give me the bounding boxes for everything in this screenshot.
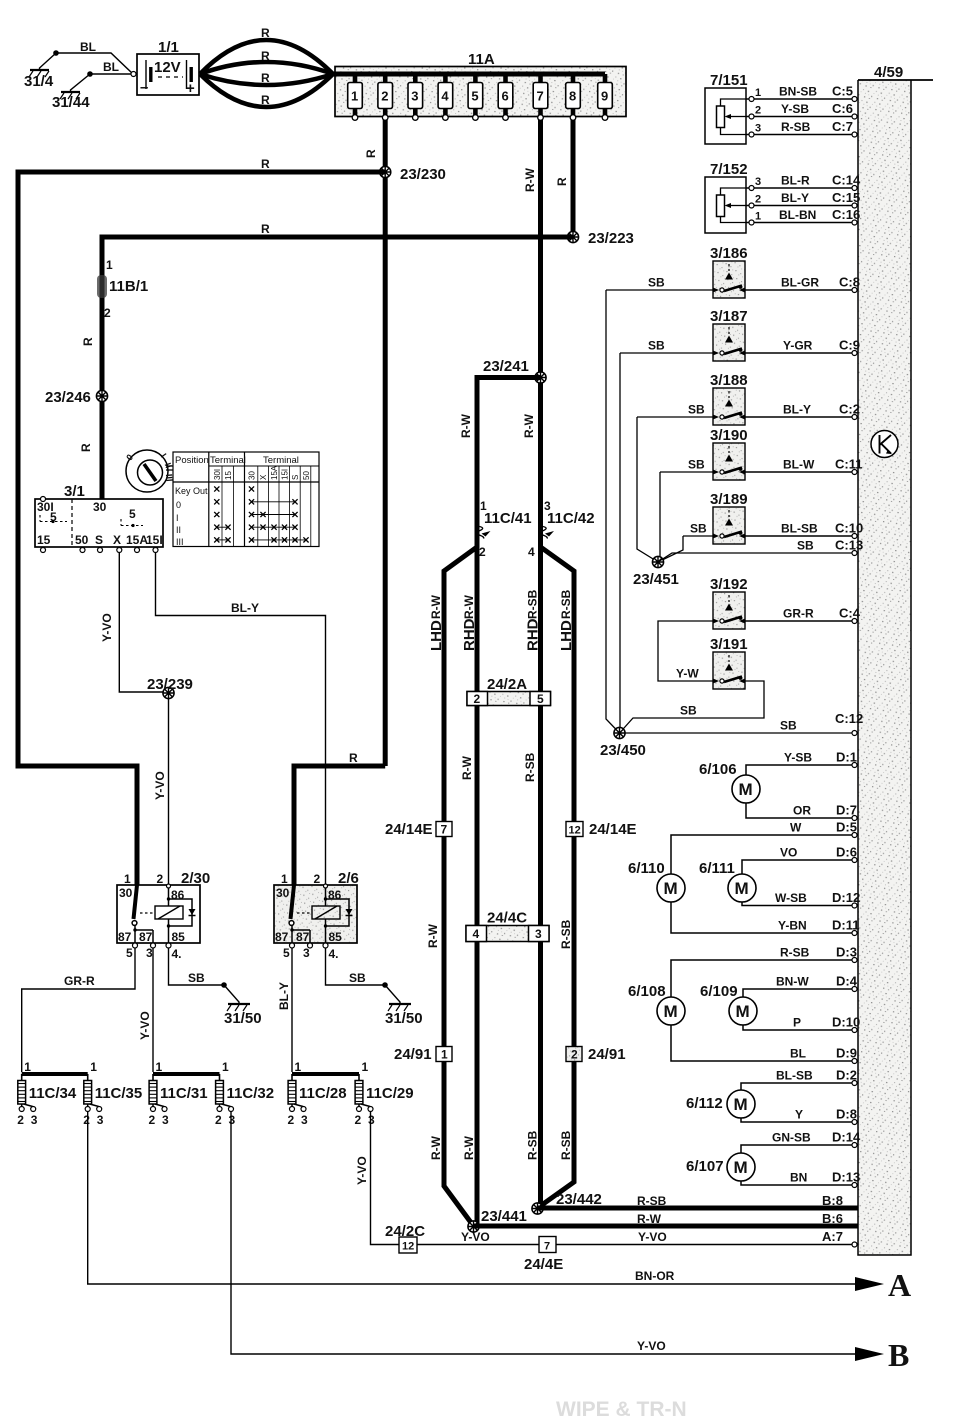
svg-text:12: 12 (569, 825, 581, 837)
motor 6/109 (700, 983, 757, 1025)
svg-text:1/1: 1/1 (158, 39, 179, 56)
svg-text:R-W: R-W (460, 755, 474, 780)
wire BL-Y 3/188 to C:2 (745, 416, 858, 418)
svg-text:+: + (186, 80, 195, 97)
inline connector 11C/41 (477, 510, 532, 539)
svg-text:R: R (261, 49, 270, 63)
svg-text:A:7: A:7 (822, 1229, 843, 1244)
svg-text:1: 1 (480, 499, 487, 513)
svg-text:8: 8 (569, 89, 576, 104)
connector 24/4C pins 4,3 (466, 910, 549, 942)
wire SB to 3/189 (683, 535, 713, 537)
svg-text:BN-W: BN-W (776, 975, 809, 989)
lamp 11C/31 (149, 1060, 208, 1127)
wire BL-SB to D:2 (741, 1083, 858, 1090)
wire SB relay 2/30 pin 85 to ground (169, 948, 225, 985)
svg-text:BL-Y: BL-Y (781, 191, 809, 205)
wire W-SB to D:12 (742, 902, 858, 906)
svg-text:SB: SB (648, 276, 665, 290)
fuse 11B/1 (97, 258, 148, 320)
svg-text:D:4: D:4 (836, 974, 858, 989)
inline connector 11C/42 (540, 510, 594, 539)
fuse 11A #2 (378, 74, 393, 120)
svg-text:24/2A: 24/2A (487, 676, 527, 693)
svg-text:R: R (555, 177, 569, 186)
fuse 11A #3 (408, 74, 423, 120)
wire Y-VO 24/4E to connector A:7 (556, 1244, 853, 1246)
sensor 7/151 (705, 72, 858, 144)
svg-text:30: 30 (276, 886, 290, 900)
svg-text:C:5: C:5 (832, 84, 853, 99)
svg-text:M: M (739, 780, 753, 799)
svg-text:5: 5 (129, 507, 136, 521)
wire BL to D:9 (671, 1025, 858, 1061)
svg-text:C:6: C:6 (832, 101, 853, 116)
arrow B (855, 1347, 884, 1361)
svg-text:2: 2 (355, 1113, 362, 1127)
svg-text:R-SB: R-SB (559, 1130, 573, 1160)
svg-text:BL-GR: BL-GR (781, 276, 819, 290)
relay relay 2/6 (274, 870, 359, 961)
connector 24/91 pin 2 (566, 1046, 626, 1063)
wire RHD R-W (475, 547, 480, 1226)
lamp feed bus 11C/34/11C/35 (22, 1072, 88, 1076)
svg-text:M: M (734, 1158, 748, 1177)
svg-text:C:11: C:11 (835, 457, 862, 472)
svg-text:3/187: 3/187 (710, 308, 748, 325)
node 23/241 (535, 372, 546, 383)
svg-text:3: 3 (146, 946, 153, 960)
svg-text:6/109: 6/109 (700, 983, 738, 1000)
wire Y-VO 24/2C to 24/4E (417, 1244, 539, 1246)
wire SB to 3/186 (606, 289, 713, 291)
wire SB 23/451 to C:13 (658, 553, 858, 562)
svg-text:15: 15 (37, 533, 51, 547)
svg-text:1: 1 (106, 258, 113, 272)
wire SB 3/186 feed vertical (606, 290, 620, 733)
svg-text:3/1: 3/1 (64, 483, 85, 500)
svg-text:Position: Position (175, 455, 209, 466)
svg-text:31/50: 31/50 (224, 1010, 262, 1027)
wire R from fuse 2 down (383, 120, 388, 766)
svg-text:15A: 15A (126, 533, 148, 547)
svg-text:11C/32: 11C/32 (227, 1085, 275, 1102)
fuse 11A #7 (533, 74, 548, 120)
wire R-W from fuse 7 down (538, 120, 543, 377)
svg-text:R-SB: R-SB (559, 919, 573, 949)
svg-text:11C/41: 11C/41 (484, 510, 532, 527)
svg-text:11C/34: 11C/34 (29, 1085, 77, 1102)
wire R-SB to D:3 (671, 960, 858, 997)
wire R-SB 7/151 pin 3 to C:7 (746, 134, 858, 136)
svg-text:3: 3 (411, 89, 418, 104)
svg-text:2/30: 2/30 (181, 870, 210, 887)
switch 3/192 (710, 576, 748, 629)
svg-text:Y-VO: Y-VO (355, 1156, 369, 1185)
svg-text:2: 2 (755, 105, 761, 117)
ground 31/50 right (382, 982, 422, 1027)
svg-text:3: 3 (303, 946, 310, 960)
svg-text:1: 1 (124, 872, 131, 886)
svg-text:Y-BN: Y-BN (778, 919, 807, 933)
fuse 11A #1 (348, 74, 363, 120)
svg-text:2: 2 (755, 194, 761, 206)
svg-text:11A: 11A (468, 51, 495, 68)
wire SB to 3/188 (637, 416, 713, 418)
svg-text:M: M (664, 1002, 678, 1021)
svg-text:23/230: 23/230 (400, 166, 446, 183)
svg-text:15: 15 (224, 471, 233, 480)
wire RHD R-SB (538, 547, 543, 1208)
svg-text:5: 5 (537, 692, 544, 706)
svg-text:B:8: B:8 (822, 1193, 843, 1208)
svg-text:3/186: 3/186 (710, 245, 748, 262)
wire P to D:10 (743, 1025, 858, 1030)
svg-text:50: 50 (302, 471, 311, 480)
arrow A (855, 1277, 884, 1291)
svg-text:SB: SB (688, 403, 705, 417)
svg-text:Terminal: Terminal (210, 455, 246, 466)
svg-text:R: R (261, 26, 270, 40)
lamp feed bus 11C/28/11C/29 (292, 1072, 359, 1076)
svg-text:31/44: 31/44 (52, 94, 90, 111)
svg-text:SB: SB (690, 522, 707, 536)
svg-text:23/246: 23/246 (45, 389, 91, 406)
lamp 11C/29 (355, 1060, 414, 1127)
svg-text:2: 2 (314, 872, 321, 886)
wire Y-SB 7/151 pin 2 to C:6 (746, 116, 858, 118)
wire BL-R 7/152 pin 3 to C:14 (746, 187, 858, 189)
svg-text:Y-SB: Y-SB (781, 102, 809, 116)
wire Y-BN to D:11 (671, 902, 858, 933)
svg-text:A: A (888, 1267, 911, 1303)
svg-text:R-SB: R-SB (526, 1130, 540, 1160)
svg-text:OR: OR (793, 804, 811, 818)
svg-text:R-W: R-W (426, 923, 440, 948)
svg-text:BL-SB: BL-SB (776, 1069, 813, 1083)
motor 6/111 (699, 860, 756, 902)
svg-text:SB: SB (797, 539, 814, 553)
wire R 23/230 left loop to relay 2/30 (18, 172, 385, 886)
svg-text:BN-OR: BN-OR (635, 1269, 675, 1283)
svg-text:Y-SB: Y-SB (784, 751, 812, 765)
wire OR to D:7 (746, 803, 858, 818)
svg-text:12V: 12V (154, 59, 181, 76)
svg-text:3/192: 3/192 (710, 576, 748, 593)
wire R 23/223 to ignition switch (102, 237, 573, 499)
svg-text:SB: SB (688, 458, 705, 472)
svg-text:C:16: C:16 (832, 207, 860, 222)
svg-text:R-SB: R-SB (780, 946, 810, 960)
svg-text:R-W: R-W (637, 1212, 662, 1226)
svg-text:2: 2 (83, 1113, 90, 1127)
svg-text:Key Out: Key Out (175, 486, 208, 496)
wire Y-W 3/192 to 3/191 (658, 621, 713, 681)
svg-text:15I: 15I (281, 469, 290, 480)
svg-text:M: M (736, 1002, 750, 1021)
wire BL-Y relay 2/6 pin 87 to lamps (291, 948, 293, 1072)
motor 6/110 (628, 860, 685, 902)
svg-text:23/441: 23/441 (481, 1208, 527, 1225)
svg-text:BN-SB: BN-SB (779, 85, 817, 99)
lamp feed bus 11C/31/11C/32 (153, 1072, 220, 1076)
svg-text:RHD: RHD (461, 618, 478, 651)
svg-text:1: 1 (295, 1060, 302, 1074)
switch 3/190 (710, 427, 748, 480)
wire R-W 23/241 branch (477, 378, 541, 548)
svg-text:R-W: R-W (462, 594, 476, 619)
svg-text:Terminal: Terminal (263, 455, 299, 466)
svg-text:2: 2 (474, 692, 481, 706)
svg-text:30: 30 (248, 471, 257, 480)
key switch symbol (124, 450, 174, 492)
svg-text:7: 7 (544, 1241, 550, 1253)
wire Y-SB to D:1 (746, 765, 858, 775)
svg-text:R-SB: R-SB (526, 589, 540, 619)
svg-text:R-SB: R-SB (637, 1194, 667, 1208)
node 23/441 (468, 1221, 479, 1232)
svg-text:C:8: C:8 (839, 275, 860, 290)
svg-text:D:8: D:8 (836, 1107, 857, 1122)
svg-text:W: W (790, 821, 802, 835)
wire Y to D:8 (741, 1118, 858, 1122)
symbol K on 4/59 (871, 431, 898, 458)
svg-text:P: P (793, 1016, 801, 1030)
ground 31/4 (24, 50, 59, 90)
ground 31/44 (52, 71, 93, 111)
svg-text:R: R (261, 93, 270, 107)
svg-text:11C/35: 11C/35 (95, 1085, 143, 1102)
svg-text:M: M (735, 879, 749, 898)
svg-text:15I: 15I (146, 533, 163, 547)
svg-text:23/451: 23/451 (633, 571, 679, 588)
wire GR-R 3/192 to C:4 (745, 620, 858, 622)
svg-text:1: 1 (222, 1060, 229, 1074)
svg-text:1: 1 (90, 1060, 97, 1074)
svg-text:1: 1 (156, 1060, 163, 1074)
svg-text:Y-VO: Y-VO (637, 1339, 666, 1353)
svg-text:R-W: R-W (459, 413, 473, 438)
svg-text:0: 0 (176, 500, 181, 510)
svg-text:1: 1 (755, 87, 761, 99)
svg-text:2: 2 (288, 1113, 295, 1127)
svg-text:23/239: 23/239 (147, 676, 193, 693)
svg-text:3: 3 (97, 1113, 104, 1127)
svg-text:M: M (734, 1095, 748, 1114)
svg-text:BL: BL (80, 40, 96, 54)
svg-text:2: 2 (215, 1113, 222, 1127)
wire SB relay 2/6 pin 85 to ground (326, 948, 386, 985)
wire BN-OR lamp 11C/35 to arrow A (88, 1112, 856, 1285)
svg-text:D:12: D:12 (832, 890, 860, 905)
svg-text:24/91: 24/91 (394, 1046, 432, 1063)
lamp 11C/34 (17, 1060, 77, 1127)
wire 3/188 feed to 23/451 (637, 417, 658, 562)
svg-text:3/191: 3/191 (710, 636, 748, 653)
svg-text:3: 3 (368, 1113, 375, 1127)
svg-text:BL-Y: BL-Y (277, 982, 291, 1010)
svg-text:GR-R: GR-R (783, 607, 814, 621)
svg-text:11C/31: 11C/31 (160, 1085, 208, 1102)
svg-text:3/189: 3/189 (710, 491, 748, 508)
motor 6/112 (686, 1090, 755, 1118)
lamp 11C/35 (83, 1060, 142, 1127)
ground 31/50 left (221, 982, 261, 1027)
svg-text:BL-SB: BL-SB (781, 522, 818, 536)
svg-text:6/106: 6/106 (699, 761, 737, 778)
svg-text:30: 30 (119, 886, 133, 900)
connector 24/91 pin 1 (394, 1046, 452, 1063)
svg-text:7/151: 7/151 (710, 72, 748, 89)
svg-text:1: 1 (755, 211, 761, 223)
svg-text:LHD: LHD (558, 620, 575, 651)
svg-text:3/190: 3/190 (710, 427, 748, 444)
svg-text:C:13: C:13 (835, 538, 863, 553)
svg-text:D:3: D:3 (836, 945, 857, 960)
svg-text:D:14: D:14 (832, 1130, 861, 1145)
svg-text:SB: SB (780, 719, 797, 733)
svg-text:11C/42: 11C/42 (547, 510, 595, 527)
svg-text:11C/29: 11C/29 (366, 1085, 414, 1102)
relay relay 2/30 (117, 870, 210, 961)
wire GR-R relay 2/30 pin 87 to lamps (22, 948, 135, 1072)
svg-text:R-W: R-W (429, 594, 443, 619)
svg-text:87: 87 (139, 930, 153, 944)
ignition switch 3/1 (35, 483, 163, 553)
svg-text:C:2: C:2 (839, 402, 860, 417)
wire R fuse2 path to relay 2/6 (294, 766, 385, 886)
wire GN-SB to D:14 (741, 1145, 858, 1153)
svg-text:3: 3 (162, 1113, 169, 1127)
wire BN-W to D:4 (743, 989, 858, 997)
connector 24/2C pin 12 (385, 1223, 425, 1253)
wire R-W 23/441 to B:6 (474, 1224, 859, 1229)
svg-text:C:7: C:7 (832, 119, 853, 134)
svg-text:D:5: D:5 (836, 820, 857, 835)
svg-text:2: 2 (381, 89, 388, 104)
svg-text:R: R (261, 71, 270, 85)
svg-text:23/450: 23/450 (600, 742, 646, 759)
fusebox 11A (333, 51, 626, 120)
svg-text:11C/28: 11C/28 (299, 1085, 347, 1102)
svg-text:23/223: 23/223 (588, 230, 634, 247)
svg-text:4/59: 4/59 (874, 64, 903, 81)
wire SB 3/187 feed vertical (619, 353, 621, 731)
svg-text:5: 5 (471, 89, 478, 104)
fusebox bus wire (333, 72, 605, 77)
svg-text:11B/1: 11B/1 (109, 278, 148, 295)
svg-text:GR-R: GR-R (64, 974, 95, 988)
node 23/223 (567, 231, 578, 242)
connector 24/14E pin 12 (566, 821, 637, 838)
svg-text:1: 1 (24, 1060, 31, 1074)
svg-text:3: 3 (755, 176, 761, 188)
svg-text:C:15: C:15 (832, 190, 860, 205)
switch 3/187 (710, 308, 748, 361)
svg-text:BL-Y: BL-Y (783, 403, 811, 417)
switch 3/189 (710, 491, 748, 544)
svg-text:6/108: 6/108 (628, 983, 666, 1000)
svg-text:86: 86 (171, 888, 185, 902)
svg-text:6/107: 6/107 (686, 1158, 724, 1175)
wire BL ground 31/4 to battery (56, 53, 133, 74)
svg-text:B:6: B:6 (822, 1211, 843, 1226)
svg-text:C:12: C:12 (835, 711, 863, 726)
svg-text:4: 4 (441, 89, 449, 104)
wire BN to D:13 (741, 1181, 858, 1185)
svg-text:Y-VO: Y-VO (153, 771, 167, 800)
svg-text:II: II (176, 525, 181, 535)
lamp 11C/28 (288, 1060, 347, 1127)
svg-text:R: R (349, 751, 358, 765)
svg-text:SB: SB (349, 971, 366, 985)
svg-text:Y-W: Y-W (676, 667, 699, 681)
battery 1/1 12V (131, 39, 199, 97)
wire R from fuse 8 down (571, 120, 576, 237)
svg-text:1: 1 (351, 89, 358, 104)
svg-text:87: 87 (296, 930, 310, 944)
motor 6/108 (628, 983, 685, 1025)
wire Y-VO ignition X to 23/239 (119, 553, 168, 693)
wire SB 23/450 to C:12 (625, 732, 858, 734)
svg-text:15A: 15A (270, 465, 279, 480)
svg-text:C:10: C:10 (835, 521, 863, 536)
wire Y-VO relay 2/30 pin 87b to lamps (152, 948, 154, 1072)
svg-text:R: R (261, 157, 270, 171)
svg-text:BL: BL (790, 1047, 806, 1061)
wire Y-VO lamp 11C/32 to arrow B (231, 1112, 856, 1355)
svg-text:D:13: D:13 (832, 1170, 860, 1185)
svg-text:VO: VO (780, 846, 797, 860)
svg-text:24/14E: 24/14E (385, 821, 433, 838)
svg-text:5: 5 (126, 946, 133, 960)
svg-text:6/111: 6/111 (699, 860, 735, 877)
wire BL ground 31/44 to battery (90, 73, 133, 75)
svg-text:4.: 4. (172, 947, 182, 961)
svg-text:3: 3 (755, 123, 761, 135)
svg-text:D:10: D:10 (832, 1015, 860, 1030)
svg-text:WIPE & TR-N: WIPE & TR-N (556, 1398, 687, 1416)
svg-text:23/241: 23/241 (483, 358, 529, 375)
svg-text:B: B (888, 1337, 909, 1373)
svg-text:2: 2 (149, 1113, 156, 1127)
svg-text:Y-VO: Y-VO (138, 1011, 152, 1040)
svg-text:7: 7 (441, 823, 448, 837)
svg-text:6/112: 6/112 (686, 1095, 723, 1112)
svg-text:D:1: D:1 (836, 750, 857, 765)
wire BL-W 3/190 to C:11 (745, 471, 858, 473)
svg-text:BN: BN (790, 1171, 807, 1185)
svg-text:R: R (364, 149, 378, 158)
svg-text:Y: Y (795, 1108, 803, 1122)
svg-text:7/152: 7/152 (710, 161, 748, 178)
lamp 11C/32 (215, 1060, 274, 1127)
motor 6/107 (686, 1153, 755, 1181)
connector 24/2A pins 2,5 (467, 676, 551, 706)
svg-text:D:9: D:9 (836, 1046, 857, 1061)
svg-text:2: 2 (157, 872, 164, 886)
fuse 11A #5 (468, 74, 483, 120)
svg-text:24/4E: 24/4E (524, 1256, 563, 1273)
fuse 11A #4 (438, 74, 453, 120)
svg-text:2: 2 (479, 545, 486, 559)
svg-text:24/91: 24/91 (588, 1046, 626, 1063)
wire SB to 3/190 (660, 471, 713, 473)
svg-text:31/4: 31/4 (24, 73, 54, 90)
svg-text:86: 86 (328, 888, 342, 902)
svg-text:M: M (664, 879, 678, 898)
ignition position table (173, 452, 319, 547)
